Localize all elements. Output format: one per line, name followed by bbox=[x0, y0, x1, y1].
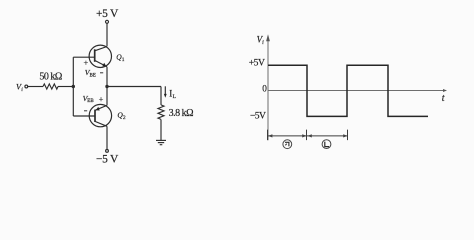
svg-text:2: 2 bbox=[123, 115, 126, 121]
svg-text:+: + bbox=[84, 58, 89, 68]
svg-text:+: + bbox=[99, 94, 104, 104]
svg-text:−5V: −5V bbox=[250, 111, 266, 122]
svg-text:0: 0 bbox=[262, 83, 267, 93]
svg-text:50 kΩ: 50 kΩ bbox=[39, 72, 62, 83]
svg-text:i: i bbox=[21, 87, 23, 93]
svg-text:1: 1 bbox=[122, 57, 125, 63]
svg-text:EB: EB bbox=[87, 99, 94, 104]
svg-text:BE: BE bbox=[90, 74, 96, 79]
svg-text:+5V: +5V bbox=[249, 57, 265, 68]
svg-text:i: i bbox=[262, 40, 264, 46]
svg-text:t: t bbox=[442, 93, 445, 104]
svg-text:−5 V: −5 V bbox=[96, 153, 119, 165]
svg-text:3.8 kΩ: 3.8 kΩ bbox=[169, 108, 194, 119]
svg-text:+5 V: +5 V bbox=[96, 8, 119, 20]
svg-text:L: L bbox=[173, 94, 177, 100]
